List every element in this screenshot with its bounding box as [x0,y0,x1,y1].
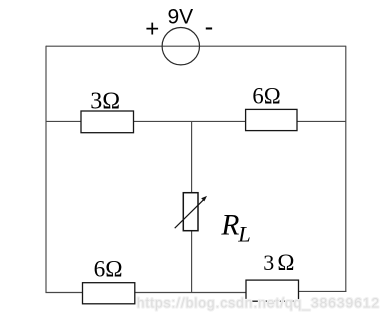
resistor R-3ohm bottom-right box [246,280,299,301]
wire middle vertical (load branch) [191,121,193,292]
svg-text:6Ω: 6Ω [252,84,280,109]
svg-text:6Ω: 6Ω [94,257,123,283]
svg-text:https://blog.csdn.net/qq_38639: https://blog.csdn.net/qq_38639612 [137,295,380,311]
svg-text:L: L [237,221,251,246]
svg-text:+: + [145,15,159,42]
wire bottom-right segment [246,290,346,292]
resistor R-6ohm bottom-left box [83,283,135,304]
svg-text:9V: 9V [168,5,194,28]
resistor R-3ohm middle-left box [81,111,134,133]
wire middle horizontal row [46,120,346,122]
wire left (left vertical rail) [45,46,47,293]
variable load resistor RL box [183,193,198,231]
wire top (from top-left corner through source to top-right corner) [46,45,346,47]
RL adjustment arrow [175,199,204,228]
svg-text:3Ω: 3Ω [263,250,294,275]
resistor R-6ohm middle-right box [246,109,297,130]
wire bottom-left segment [46,292,247,294]
svg-text:R: R [220,209,239,241]
svg-text:-: - [205,11,214,41]
wire right (right vertical rail) [345,46,347,292]
svg-text:3Ω: 3Ω [90,89,120,115]
voltage source V1 circle [162,28,199,65]
